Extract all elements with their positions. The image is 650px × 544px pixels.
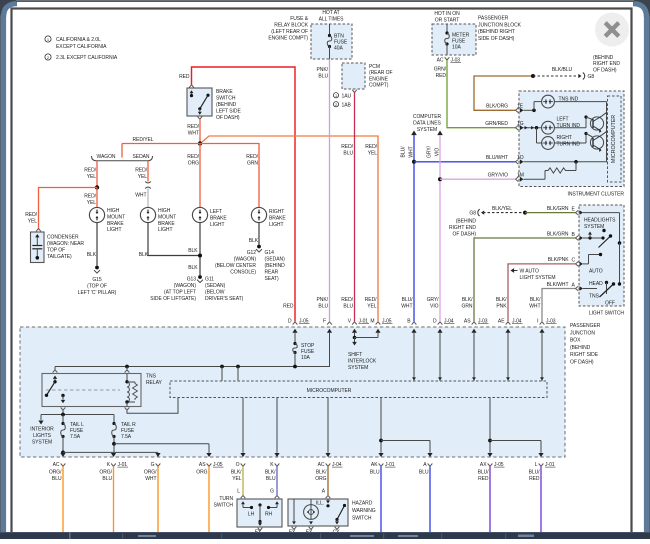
svg-text:1: 1	[335, 94, 337, 98]
svg-text:RED/: RED/	[84, 168, 96, 174]
svg-text:WHT: WHT	[188, 131, 199, 137]
close button	[595, 13, 629, 47]
svg-text:YEL: YEL	[138, 174, 148, 180]
pin 1G entry	[516, 125, 524, 130]
wire RED/YEL into high mount brake light (wagon)	[96, 188, 98, 208]
svg-text:(BEHIND: (BEHIND	[216, 102, 237, 108]
PJB terminal O (BLK/YEL wire exit)	[236, 453, 246, 468]
svg-text:CALIFORNIA & 2.0L: CALIFORNIA & 2.0L	[56, 37, 101, 43]
svg-text:RED/: RED/	[365, 297, 377, 303]
svg-text:I: I	[537, 318, 538, 324]
inline connector on sedan wire	[145, 182, 151, 189]
svg-text:RED/: RED/	[246, 154, 258, 160]
svg-text:BLK/WHT: BLK/WHT	[547, 282, 569, 288]
label WAGON	[96, 154, 115, 160]
label BLK/YEL (bottom)	[231, 470, 242, 483]
fuse BTN FUSE 40A	[327, 24, 348, 59]
node GRY/VIO junction	[438, 177, 442, 181]
svg-text:BLK: BLK	[139, 252, 149, 258]
lamp right brake light	[251, 207, 266, 222]
svg-text:(WAGON): (WAGON)	[234, 257, 257, 263]
label ORG/BLU (bottom)	[99, 470, 112, 483]
label (BEHIND RIGHT END OF DASH) left	[449, 219, 476, 238]
svg-text:HEADLIGHTS: HEADLIGHTS	[584, 218, 616, 224]
svg-text:OR START: OR START	[435, 18, 459, 24]
fuse METER FUSE 10A	[445, 24, 470, 55]
svg-text:(AT TOP LEFT: (AT TOP LEFT	[164, 290, 196, 296]
wire RED/ORG to left brake light	[199, 144, 201, 208]
svg-text:RED: RED	[436, 73, 447, 79]
svg-text:G14: G14	[265, 250, 275, 256]
svg-text:PCM: PCM	[369, 64, 380, 70]
svg-text:(BEHIND RIGHT: (BEHIND RIGHT	[478, 29, 515, 35]
lamp RIGHT TURN IND	[542, 137, 555, 150]
svg-text:RED: RED	[283, 304, 294, 310]
svg-text:MICROCOMPUTER: MICROCOMPUTER	[611, 115, 617, 163]
label INTERIOR LIGHTS SYSTEM	[30, 427, 54, 446]
svg-text:2.3L EXCEPT CALIFORNIA: 2.3L EXCEPT CALIFORNIA	[56, 55, 118, 61]
wire BLU/WHT branch to instrument cluster 1O	[414, 161, 516, 163]
wire tail L bus to terminals AC and G	[61, 437, 158, 455]
PJB terminal D (RED wire entry)	[288, 318, 310, 343]
svg-text:AC: AC	[437, 58, 444, 64]
svg-text:LIGHT: LIGHT	[107, 227, 121, 233]
label BLK/GRN (row)	[462, 297, 474, 310]
svg-text:(SEDAN): (SEDAN)	[205, 283, 226, 289]
label WHT	[135, 193, 146, 199]
label BLK/WHT A	[547, 282, 576, 289]
svg-text:G8: G8	[588, 74, 595, 80]
label HEAD	[589, 281, 603, 287]
svg-text:CONSOLE): CONSOLE)	[230, 270, 256, 276]
label BLK (left brake)	[188, 248, 198, 271]
svg-text:1O: 1O	[517, 155, 524, 161]
svg-text:CONDENSER: CONDENSER	[47, 235, 79, 241]
svg-text:RELAY: RELAY	[146, 380, 162, 386]
light switch internal circuit	[583, 213, 621, 297]
wire BLK/YEL dashed from G8	[483, 212, 525, 214]
svg-text:AE: AE	[498, 318, 505, 324]
label CONDENSER (WAGON: NEAR TOP OF TAILGATE)	[47, 235, 84, 261]
label BLK (right brake)	[249, 238, 259, 244]
svg-text:L: L	[535, 462, 538, 468]
label ORG/WHT (bottom)	[144, 470, 157, 483]
wagon/sedan split bracket	[92, 156, 153, 163]
svg-text:BLK/GRN: BLK/GRN	[547, 232, 569, 238]
node BLK/GRN junction E	[523, 211, 527, 215]
svg-text:BLU: BLU	[419, 470, 429, 476]
wire ORG (bottom)	[208, 466, 210, 532]
label G terminal	[270, 489, 274, 495]
wire microcomputer outputs to turn/hazard terminals	[243, 398, 328, 453]
svg-text:BLK: BLK	[87, 252, 97, 258]
label RIGHT BRAKE LIGHT	[269, 209, 286, 228]
svg-text:GRN/RED: GRN/RED	[485, 121, 508, 127]
label GRN/RED 1G	[485, 121, 523, 127]
TNS relay	[42, 367, 141, 411]
lamp LEFT TURN IND	[542, 121, 555, 134]
label BLK/WHT (row)	[529, 297, 541, 310]
label RED/YEL (top left)	[132, 137, 153, 143]
svg-text:7.5A: 7.5A	[70, 434, 81, 440]
label BLU (bottom)	[419, 470, 429, 476]
label BLK (sedan)	[139, 252, 149, 258]
fuse TAIL L FUSE 7.5A	[61, 415, 84, 441]
svg-text:BRAKE: BRAKE	[158, 221, 175, 227]
svg-text:(TOP OF: (TOP OF	[87, 284, 107, 290]
svg-text:WHT: WHT	[145, 476, 156, 482]
svg-text:YEL: YEL	[87, 200, 97, 206]
svg-text:RED/: RED/	[341, 297, 353, 303]
label HAZARD WARNING SWITCH	[352, 501, 376, 522]
microcomputer sub-box in cluster	[608, 96, 622, 182]
bottom task bar	[0, 532, 650, 539]
wire bus stubs to microcomputer	[222, 367, 238, 382]
wire BLK right brake light to G12/G14	[258, 223, 260, 245]
wire RED/BLU (PCM to PJB terminal V)	[354, 93, 356, 322]
svg-text:TURN: TURN	[219, 496, 233, 502]
wire cluster TNS circuit	[524, 102, 607, 162]
svg-text:COMPUTER: COMPUTER	[413, 114, 442, 120]
label OFF	[605, 301, 615, 307]
legend note 2	[45, 54, 118, 61]
svg-text:HEAD: HEAD	[589, 281, 603, 287]
label TNS	[589, 294, 600, 300]
PCM (dashed box)	[342, 63, 365, 89]
wire BLK/PNK to light switch C and PJB terminal AE	[508, 264, 576, 322]
transistor Q1 (left turn driver)	[590, 113, 606, 133]
wire BLU/RED (bottom)	[489, 466, 491, 532]
svg-text:GRN: GRN	[462, 304, 473, 310]
PJB terminal K (ORG/BLU wire exit)	[107, 453, 128, 468]
PJB terminal L (BLU/RED wire exit)	[535, 453, 556, 468]
label PNK/BLU (upper)	[317, 67, 329, 80]
svg-text:BLK/: BLK/	[496, 297, 507, 303]
svg-text:BLK: BLK	[249, 238, 259, 244]
label A terminal	[322, 489, 326, 495]
label BLU (bottom)	[370, 470, 380, 476]
svg-text:HIGH: HIGH	[107, 208, 120, 214]
label HOT AT ALL TIMES	[319, 10, 345, 23]
svg-text:ORG: ORG	[315, 476, 326, 482]
label BLK (G15)	[87, 252, 97, 258]
light switch pin E	[576, 210, 584, 215]
svg-text:YEL: YEL	[368, 151, 378, 157]
PJB terminal F (PNK/BLU wire entry)	[323, 318, 332, 366]
transistor Q2 (right turn driver)	[590, 132, 606, 152]
svg-text:BLK/PNK: BLK/PNK	[548, 257, 569, 263]
svg-text:ENGINE: ENGINE	[369, 76, 389, 82]
svg-text:OF DASH): OF DASH)	[453, 232, 477, 238]
svg-text:1G: 1G	[517, 121, 524, 127]
label INSTRUMENT CLUSTER	[567, 192, 624, 198]
svg-text:BLK/: BLK/	[265, 470, 276, 476]
svg-text:BLK/ORG: BLK/ORG	[486, 104, 508, 110]
svg-text:BLU: BLU	[343, 304, 353, 310]
lamp TNS IND	[542, 95, 555, 108]
svg-text:SYSTEM: SYSTEM	[348, 365, 368, 371]
fuse TAIL R FUSE 7.5A	[112, 415, 136, 441]
pin 1O entry	[516, 159, 524, 164]
svg-text:(WAGON): (WAGON)	[174, 283, 197, 289]
svg-text:RED: RED	[478, 476, 489, 482]
svg-text:(SEDAN): (SEDAN)	[265, 257, 286, 263]
ground G8 (top right)	[578, 73, 594, 80]
svg-text:RIGHT: RIGHT	[557, 135, 572, 141]
wire RED/WHT below brake switch	[199, 119, 201, 143]
hazard warning switch	[288, 495, 348, 529]
label AUTO	[589, 269, 603, 275]
svg-text:VIO: VIO	[430, 304, 439, 310]
wire BLK sedan high-mount	[148, 223, 200, 256]
svg-text:GRY/: GRY/	[427, 297, 440, 303]
svg-text:ORG: ORG	[188, 161, 199, 167]
svg-text:INTERIOR: INTERIOR	[30, 427, 54, 433]
svg-text:BLU/: BLU/	[402, 297, 414, 303]
svg-text:O: O	[236, 462, 240, 468]
svg-text:BLK/YEL: BLK/YEL	[492, 206, 512, 212]
lamp left brake light	[192, 207, 207, 222]
ground G13/G11	[197, 275, 203, 283]
svg-text:DATA LINES: DATA LINES	[413, 121, 441, 127]
label LEFT BRAKE LIGHT	[210, 209, 227, 228]
window top edge	[16, 0, 634, 2]
light switch pin A	[576, 286, 584, 291]
PJB terminal AK (BLU wire exit)	[371, 453, 396, 468]
svg-text:WHT: WHT	[135, 193, 146, 199]
svg-text:10A: 10A	[301, 355, 310, 361]
svg-text:BRAKE: BRAKE	[107, 221, 124, 227]
PJB terminal I (BLK/WHT wire entry)	[537, 318, 556, 381]
svg-text:RED/: RED/	[187, 124, 199, 130]
svg-text:GRY/VIO: GRY/VIO	[488, 173, 509, 179]
svg-text:AUTO: AUTO	[589, 269, 603, 275]
svg-text:TAILGATE): TAILGATE)	[47, 254, 72, 260]
svg-text:ORG/: ORG/	[49, 470, 62, 476]
svg-text:D: D	[288, 318, 292, 324]
svg-text:BLK/BLU: BLK/BLU	[552, 67, 573, 73]
svg-text:YEL: YEL	[87, 174, 97, 180]
svg-text:JUNCTION: JUNCTION	[570, 330, 595, 336]
svg-text:GRY/: GRY/	[427, 145, 433, 158]
svg-text:RIGHT SIDE: RIGHT SIDE	[570, 352, 599, 358]
label BLK/BLU	[552, 67, 573, 73]
label COMPUTER DATA LINES SYSTEM	[413, 114, 442, 133]
svg-text:1M: 1M	[517, 173, 524, 179]
turn switch	[237, 495, 282, 530]
label BLU/RED (bottom)	[529, 470, 541, 483]
svg-text:RED/: RED/	[187, 154, 199, 160]
svg-text:(BEHIND: (BEHIND	[456, 219, 477, 225]
svg-text:RED/: RED/	[365, 144, 377, 150]
wire BLK/ORG (G8 branch to instrument cluster 1E)	[474, 76, 533, 110]
label BLU/RED (bottom)	[478, 470, 490, 483]
svg-text:LH: LH	[248, 512, 255, 518]
svg-text:BLU: BLU	[370, 470, 380, 476]
label G12 (WAGON) (BELOW CENTER CONSOLE)	[215, 250, 256, 276]
label TURN SWITCH	[214, 496, 234, 509]
label SEDAN	[133, 154, 150, 160]
svg-text:TNS: TNS	[146, 374, 157, 380]
wire WHT into high mount brake light (sedan)	[147, 189, 149, 208]
wire ORG/BLU (bottom)	[113, 466, 115, 532]
label HOT IN ON OR START	[434, 11, 460, 24]
svg-text:G: G	[270, 489, 274, 495]
label PNK/BLU (row)	[317, 297, 329, 310]
fuse STOP FUSE 10A	[293, 342, 315, 367]
node BLU/WHT junction	[412, 160, 416, 164]
label ORG (bottom)	[196, 470, 207, 476]
wire BLK wagon high-mount to G15	[96, 223, 98, 266]
wire 1O to microcomputer	[524, 160, 608, 164]
svg-text:LEFT: LEFT	[557, 117, 569, 123]
svg-text:SWITCH: SWITCH	[214, 503, 234, 509]
node wagon junction	[95, 185, 99, 189]
ground G15	[94, 266, 100, 274]
wire BLU/RED (bottom)	[540, 466, 542, 532]
svg-text:ORG/: ORG/	[144, 470, 157, 476]
svg-text:BLK/GRN: BLK/GRN	[547, 206, 569, 212]
PJB terminal AS (BLK/GRN wire entry)	[464, 318, 489, 381]
PJB terminal B (BLU/WHT wire entry)	[407, 318, 416, 381]
svg-text:BLU/WHT: BLU/WHT	[486, 155, 508, 161]
wire RED supply (brake switch to PJB terminal D)	[192, 67, 296, 322]
label TNS IND	[559, 96, 579, 102]
resistor in cluster	[524, 162, 577, 179]
svg-text:L: L	[237, 489, 240, 495]
svg-text:PASSENGER: PASSENGER	[478, 16, 509, 22]
label BLK/PNK C	[548, 257, 576, 264]
wire BLK left brake light to G13/G11	[198, 223, 202, 275]
label HEADLIGHTS SYSTEM	[584, 218, 616, 231]
svg-text:OFF: OFF	[605, 301, 615, 307]
svg-text:HOT AT: HOT AT	[322, 10, 339, 16]
svg-text:RH: RH	[265, 512, 273, 518]
wire BLK/GRN to light switch B and PJB terminal AS	[474, 238, 576, 322]
label RED/YEL (below junction)	[84, 194, 96, 207]
svg-text:C: C	[572, 258, 576, 264]
PJB terminal AS (ORG wire exit)	[199, 453, 224, 468]
svg-text:(BELOW CENTER: (BELOW CENTER	[215, 263, 256, 269]
ground G8 (left, behind right end of dash)	[469, 209, 484, 216]
svg-text:(BEHIND: (BEHIND	[570, 345, 591, 351]
svg-text:PNK/: PNK/	[317, 67, 329, 73]
svg-text:G15: G15	[92, 277, 102, 283]
window edge right	[633, 4, 650, 532]
svg-text:G: G	[151, 462, 155, 468]
label BLK/YEL	[492, 206, 512, 212]
svg-text:SWITCH: SWITCH	[352, 516, 372, 522]
label RED/WHT	[187, 124, 199, 137]
svg-text:YEL: YEL	[232, 476, 242, 482]
svg-text:BLU: BLU	[266, 476, 276, 482]
svg-text:RIGHT END: RIGHT END	[593, 61, 620, 67]
wire BLK/BLU dashed to ground G8 (behind right end of dash)	[533, 75, 578, 77]
svg-text:HOT IN ON: HOT IN ON	[434, 11, 460, 17]
svg-text:SWITCH: SWITCH	[216, 96, 236, 102]
svg-text:BLK/: BLK/	[462, 297, 473, 303]
PJB terminal M (RED/YEL wire entry)	[370, 318, 392, 337]
svg-text:PNK: PNK	[496, 304, 507, 310]
svg-text:HIGH: HIGH	[158, 208, 171, 214]
svg-text:EXCEPT CALIFORNIA: EXCEPT CALIFORNIA	[56, 44, 107, 50]
svg-text:RIGHT: RIGHT	[269, 209, 284, 215]
svg-text:YEL: YEL	[28, 219, 38, 225]
svg-text:BLU: BLU	[318, 74, 328, 80]
svg-text:INTERLOCK: INTERLOCK	[348, 358, 377, 364]
svg-text:SHIFT: SHIFT	[348, 352, 362, 358]
svg-text:GRN: GRN	[247, 161, 258, 167]
lamp high mount brake light (sedan)	[140, 207, 155, 222]
brake switch	[187, 85, 212, 119]
svg-text:BLK/: BLK/	[316, 470, 327, 476]
svg-text:(BELOW: (BELOW	[205, 290, 225, 296]
label PCM (REAR OF ENGINE COMPT)	[369, 64, 393, 89]
label PASSENGER JUNCTION BOX (BEHIND RIGHT SIDE OF DASH)	[570, 323, 601, 366]
wire PJB feed bus	[55, 333, 330, 368]
wire GRN/RED (meter fuse to instrument cluster 1G)	[447, 60, 516, 128]
light switch pin B	[576, 236, 584, 241]
svg-text:TURN IND: TURN IND	[557, 123, 581, 129]
svg-text:10A: 10A	[452, 45, 461, 51]
wire RED/YEL wagon drop	[96, 163, 98, 188]
svg-text:INSTRUMENT CLUSTER: INSTRUMENT CLUSTER	[567, 192, 624, 198]
node main stoplight junction	[198, 141, 202, 145]
svg-text:BLK: BLK	[188, 248, 198, 254]
svg-text:(BEHIND: (BEHIND	[593, 55, 614, 61]
svg-text:AS: AS	[199, 462, 206, 468]
svg-text:RED/: RED/	[84, 194, 96, 200]
svg-text:LIGHT: LIGHT	[210, 222, 224, 228]
label BLU/WHT (row)	[401, 297, 413, 310]
connector AC J-03 below meter fuse	[437, 57, 461, 63]
svg-text:1AU: 1AU	[342, 94, 352, 100]
label RED/ORG	[187, 154, 199, 167]
label BLU/WHT (rotated)	[401, 146, 415, 158]
light switch pin C	[576, 262, 584, 267]
wire BLU (bottom)	[429, 466, 431, 532]
svg-text:RED/: RED/	[25, 212, 37, 218]
wire microcomputer outputs to flasher terminals	[379, 398, 541, 453]
passenger junction box (dashed box)	[20, 327, 565, 457]
svg-text:ILL.: ILL.	[316, 501, 324, 507]
svg-text:G12: G12	[247, 250, 257, 256]
svg-text:W AUTO: W AUTO	[520, 269, 539, 275]
svg-text:2: 2	[335, 103, 337, 107]
wire BLK/ORG (bottom)	[327, 466, 329, 495]
svg-text:(BEHIND: (BEHIND	[265, 263, 286, 269]
svg-text:AK: AK	[371, 462, 378, 468]
label EY (turn switch)	[255, 530, 262, 536]
label GRY/VIO (row)	[427, 297, 440, 310]
wire relay output branch	[38, 410, 114, 424]
wire tail R bus to terminals K and AS	[112, 437, 209, 453]
svg-text:BLU: BLU	[343, 151, 353, 157]
meter fuse block (dashed box)	[432, 24, 476, 55]
label TNS RELAY	[146, 374, 162, 387]
label RED/YEL (row)	[365, 297, 377, 310]
window edge left	[0, 4, 17, 532]
wire BLU/WHT (computer data lines to cluster and PJB terminal B)	[411, 131, 417, 322]
svg-text:PNK/: PNK/	[317, 297, 329, 303]
wire BLK/BLU (bottom)	[276, 466, 278, 495]
PJB terminal AE (BLK/PNK wire entry)	[498, 318, 523, 381]
label BLK/BLU (bottom)	[265, 470, 276, 483]
svg-text:SIDE OF DASH): SIDE OF DASH)	[478, 36, 515, 42]
svg-text:GRN/: GRN/	[434, 67, 447, 73]
svg-text:BLU/: BLU/	[401, 146, 407, 158]
svg-text:1AB: 1AB	[342, 103, 352, 109]
